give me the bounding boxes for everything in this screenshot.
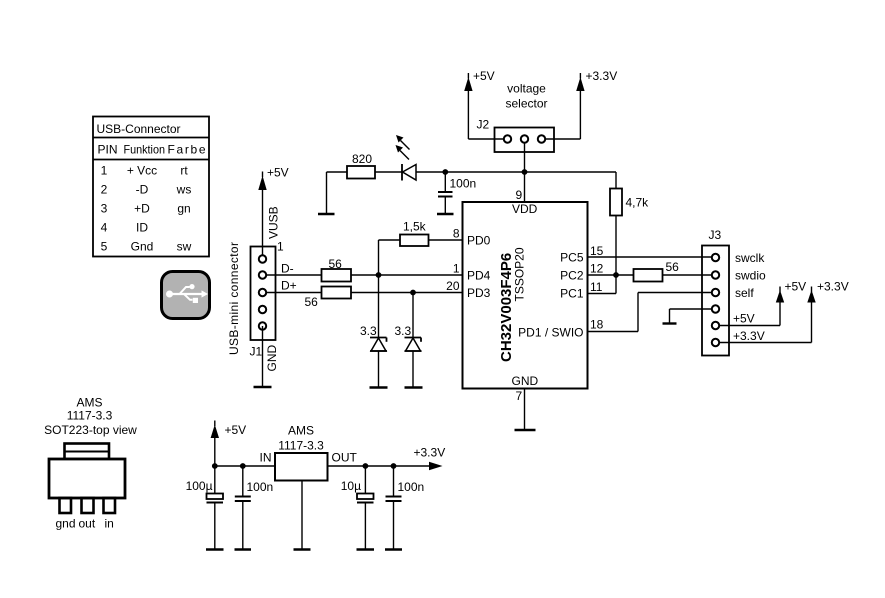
ground (100n input) xyxy=(235,548,252,550)
pin 1 label xyxy=(453,262,460,276)
wire D- to PD4 xyxy=(351,274,463,276)
wire PC2 to 56 xyxy=(588,274,634,276)
wire D+ to PD3 xyxy=(351,292,463,294)
svg-text:100µ: 100µ xyxy=(186,479,213,493)
wire D- label xyxy=(266,262,322,276)
wire J2 pin2 to VDD xyxy=(524,143,526,202)
wire 820 to led xyxy=(375,171,402,173)
regulator U2 AMS1117-3.3 xyxy=(275,424,328,481)
svg-text:8: 8 xyxy=(453,227,460,241)
pin 15 label xyxy=(590,244,604,258)
svg-text:4,7k: 4,7k xyxy=(626,196,650,210)
connector J3 xyxy=(702,246,729,356)
power +5V arrow (regulator input) xyxy=(211,421,247,439)
node junction (100u) xyxy=(212,463,218,469)
capacitor 100n (output) xyxy=(386,466,425,550)
svg-text:in: in xyxy=(105,517,114,531)
svg-text:100n: 100n xyxy=(450,177,477,191)
power +3.3V arrow (regulator output) xyxy=(414,446,446,471)
node junction (100n) xyxy=(442,169,448,175)
wire output rail xyxy=(328,465,431,467)
capacitor 10u xyxy=(341,466,374,550)
svg-text:IN: IN xyxy=(260,451,272,465)
svg-text:-D: -D xyxy=(136,183,149,197)
ground (IC) xyxy=(515,429,536,431)
led D1 xyxy=(396,135,417,181)
power +3.3V arrow (J3) xyxy=(807,280,848,303)
svg-text:Funktion: Funktion xyxy=(124,143,166,157)
svg-text:AMS: AMS xyxy=(76,396,102,410)
svg-text:1: 1 xyxy=(453,262,460,276)
svg-text:1117-3.3: 1117-3.3 xyxy=(67,409,113,423)
svg-text:+D: +D xyxy=(134,202,150,216)
label J1 xyxy=(250,345,263,359)
wire J3 pin6 to +3.3V arrow xyxy=(719,301,812,343)
label voltage selector xyxy=(505,82,547,111)
svg-text:4: 4 xyxy=(101,221,108,235)
svg-text:7: 7 xyxy=(516,389,523,403)
svg-text:PD4: PD4 xyxy=(467,269,491,283)
svg-text:voltage: voltage xyxy=(507,82,546,96)
svg-text:18: 18 xyxy=(590,318,604,332)
wire 56 to swdio xyxy=(663,274,713,276)
svg-text:+3.3V: +3.3V xyxy=(414,446,446,460)
svg-text:+5V: +5V xyxy=(473,69,495,83)
svg-text:ID: ID xyxy=(136,221,148,235)
pin 8 label + wire xyxy=(453,227,460,241)
svg-text:gn: gn xyxy=(177,202,190,216)
svg-text:820: 820 xyxy=(352,152,372,166)
svg-text:1117-3.3: 1117-3.3 xyxy=(278,439,324,453)
svg-text:PD1 / SWIO: PD1 / SWIO xyxy=(518,326,583,340)
svg-text:+5V: +5V xyxy=(225,423,247,437)
svg-text:D-: D- xyxy=(281,262,294,276)
usb icon xyxy=(162,272,210,319)
wire +5V to J2 pin1 xyxy=(468,90,504,139)
wire led to vdd rail xyxy=(416,171,616,173)
pin label 1 (J1) xyxy=(277,240,284,254)
svg-text:3.3: 3.3 xyxy=(395,324,412,338)
svg-text:rt: rt xyxy=(180,164,188,178)
wire regulator gnd xyxy=(301,481,303,550)
capacitor 100n (vdd) xyxy=(438,172,476,214)
wire D+ label xyxy=(266,279,322,293)
wire J3 pin4 to ground xyxy=(670,309,713,324)
label +3.3V (J3 pin6) xyxy=(733,329,765,343)
svg-text:USB-Connector: USB-Connector xyxy=(97,122,181,136)
resistor 1,5k xyxy=(379,220,429,276)
svg-text:1: 1 xyxy=(277,240,284,254)
wire J1 gnd xyxy=(262,326,264,387)
svg-text:56: 56 xyxy=(329,257,343,271)
svg-text:10µ: 10µ xyxy=(341,479,361,493)
svg-text:5: 5 xyxy=(101,240,108,254)
net label GND xyxy=(265,345,279,372)
pin 11 label xyxy=(590,280,603,294)
capacitor 100u xyxy=(186,466,223,550)
resistor 4,7k xyxy=(610,172,649,216)
label J2 xyxy=(477,118,490,132)
pin 9 label xyxy=(516,188,523,202)
label self xyxy=(735,286,754,300)
label J3 xyxy=(709,228,722,242)
svg-text:PC2: PC2 xyxy=(560,269,584,283)
svg-text:J2: J2 xyxy=(477,118,490,132)
wire PD1/SWIO to self xyxy=(588,293,713,332)
svg-text:VUSB: VUSB xyxy=(267,206,281,239)
capacitor 100n (input) xyxy=(235,466,273,550)
op-amp U1 CH32V003F4P6 body xyxy=(463,202,588,389)
svg-text:TSSOP20: TSSOP20 xyxy=(513,247,527,301)
ground (J1) xyxy=(254,386,272,388)
svg-text:J1: J1 xyxy=(250,345,263,359)
wire GND pin xyxy=(524,389,526,431)
svg-text:VDD: VDD xyxy=(512,202,538,216)
wire led-branch left drop xyxy=(327,172,348,214)
svg-text:3.3: 3.3 xyxy=(360,324,377,338)
ground (100u) xyxy=(206,548,224,550)
label swclk xyxy=(735,251,765,265)
svg-text:100n: 100n xyxy=(247,480,274,494)
power +5V arrow (J1 top) xyxy=(258,166,288,191)
svg-text:12: 12 xyxy=(590,262,604,276)
svg-text:J3: J3 xyxy=(709,228,722,242)
label IN xyxy=(260,451,272,465)
svg-text:+5V: +5V xyxy=(733,312,755,326)
svg-text:PC1: PC1 xyxy=(560,287,584,301)
table USB-Connector pinout xyxy=(93,117,209,257)
node junction (PC2/PC1/4.7k) xyxy=(613,272,619,278)
ground (led branch) xyxy=(318,213,335,215)
ground (regulator) xyxy=(294,548,311,550)
svg-text:out: out xyxy=(79,517,96,531)
svg-text:USB-mini connector: USB-mini connector xyxy=(227,242,241,355)
svg-text:PD3: PD3 xyxy=(467,286,491,300)
svg-text:1: 1 xyxy=(101,164,108,178)
wire J3 pin5 to +5V arrow xyxy=(719,301,780,326)
svg-text:100n: 100n xyxy=(398,480,425,494)
pin 7 label xyxy=(516,389,523,403)
svg-text:self: self xyxy=(735,286,754,300)
label USB-mini connector xyxy=(227,242,241,355)
svg-text:3: 3 xyxy=(101,202,108,216)
svg-text:ws: ws xyxy=(176,183,192,197)
svg-text:Farbe: Farbe xyxy=(168,143,206,157)
svg-text:+ Vcc: + Vcc xyxy=(127,164,157,178)
label gnd out in xyxy=(56,517,114,531)
svg-text:15: 15 xyxy=(590,244,604,258)
svg-text:Gnd: Gnd xyxy=(131,240,154,254)
svg-text:AMS: AMS xyxy=(288,424,314,438)
wire VUSB xyxy=(262,189,264,259)
power +5V arrow (J2) xyxy=(464,69,494,91)
node junction (10u) xyxy=(363,463,369,469)
label AMS 1117-3.3 SOT223-top view xyxy=(44,396,137,438)
ground (10u) xyxy=(357,548,375,550)
svg-text:OUT: OUT xyxy=(332,451,358,465)
node junction (vdd rail / J2) xyxy=(522,169,528,175)
wire 1.5k to PD0 xyxy=(429,239,463,241)
wire input rail xyxy=(215,465,275,467)
label OUT xyxy=(332,451,358,465)
resistor 820 xyxy=(347,152,375,179)
svg-text:GND: GND xyxy=(512,374,539,388)
svg-text:9: 9 xyxy=(516,188,523,202)
svg-text:+5V: +5V xyxy=(785,280,807,294)
svg-text:PD0: PD0 xyxy=(467,234,491,248)
pin 18 label xyxy=(590,318,604,332)
label swdio xyxy=(735,269,766,283)
svg-text:+3.3V: +3.3V xyxy=(733,329,765,343)
pin 12 label xyxy=(590,262,604,276)
sot223 package drawing xyxy=(49,444,125,514)
node junction (100n in) xyxy=(240,463,246,469)
resistor 56 (swdio) xyxy=(634,260,680,282)
ground (zener D-) xyxy=(370,386,388,388)
svg-text:20: 20 xyxy=(446,279,460,293)
zener diode 3.3 (D-) xyxy=(360,275,387,388)
wire 4,7k to PC2 xyxy=(615,216,617,276)
power +3.3V arrow (J2) xyxy=(576,69,617,91)
wire +3.3V to J2 pin3 xyxy=(545,90,580,139)
svg-text:+5V: +5V xyxy=(267,166,289,180)
connector J1 USB-mini xyxy=(251,247,276,341)
svg-text:PIN: PIN xyxy=(98,143,118,157)
svg-text:selector: selector xyxy=(505,97,547,111)
node junction (D+ / zener) xyxy=(410,290,416,296)
ground (zener D+) xyxy=(405,386,423,388)
svg-text:11: 11 xyxy=(590,280,603,294)
resistor 56 (D- line) xyxy=(322,257,352,282)
svg-text:1,5k: 1,5k xyxy=(403,220,427,234)
ground (J3 pin4) xyxy=(663,322,677,324)
node junction (D- / 1.5k / zener) xyxy=(376,272,382,278)
svg-text:swclk: swclk xyxy=(735,251,765,265)
net label VUSB xyxy=(267,206,281,239)
svg-text:+3.3V: +3.3V xyxy=(586,69,618,83)
wire PC5 to swclk xyxy=(588,256,713,258)
svg-text:56: 56 xyxy=(666,260,680,274)
svg-text:gnd: gnd xyxy=(56,517,76,531)
ground (100n output) xyxy=(385,548,402,550)
pin 20 label xyxy=(446,279,460,293)
svg-text:56: 56 xyxy=(305,295,319,309)
wire PC1 to junction xyxy=(588,275,617,294)
svg-text:swdio: swdio xyxy=(735,269,766,283)
power +5V arrow (J3) xyxy=(776,280,806,303)
svg-text:2: 2 xyxy=(101,183,108,197)
zener diode 3.3 (D+) xyxy=(395,293,422,388)
svg-text:+3.3V: +3.3V xyxy=(817,280,849,294)
label +5V (J3 pin5) xyxy=(733,312,755,326)
svg-text:D+: D+ xyxy=(281,279,297,293)
svg-text:sw: sw xyxy=(177,240,192,254)
svg-text:PC5: PC5 xyxy=(560,251,584,265)
connector J2 voltage selector xyxy=(495,128,555,153)
wire +5V to input rail xyxy=(214,437,216,466)
svg-text:GND: GND xyxy=(265,345,279,372)
resistor 56 (D+ line) xyxy=(305,287,352,310)
ground (100n vdd) xyxy=(437,213,454,215)
svg-text:SOT223-top view: SOT223-top view xyxy=(44,423,137,437)
node junction (100n out) xyxy=(391,463,397,469)
